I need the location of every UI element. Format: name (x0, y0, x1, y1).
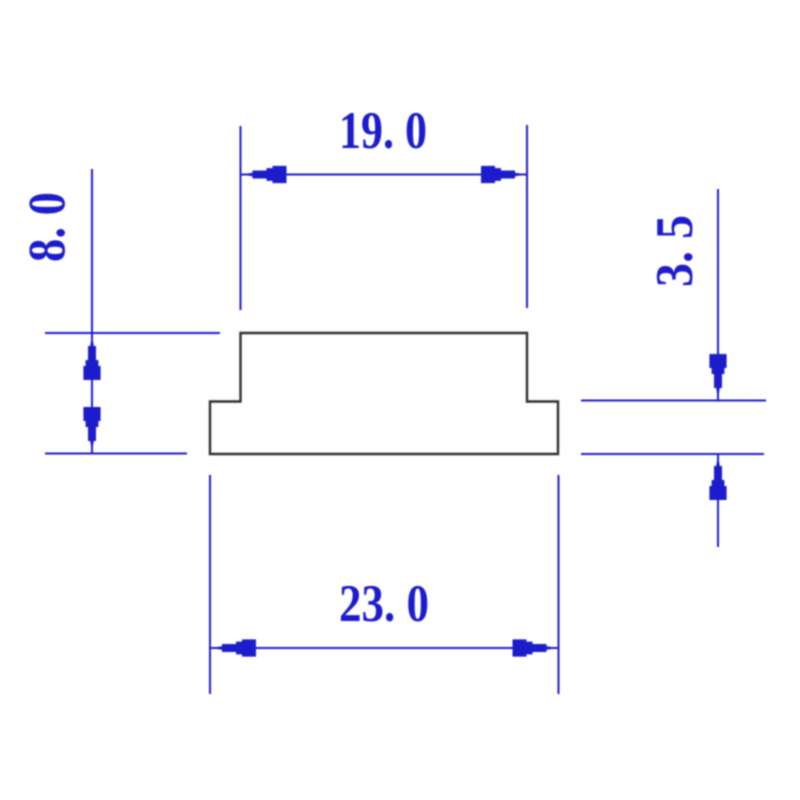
svg-text:3. 5: 3. 5 (646, 215, 704, 287)
svg-text:8. 0: 8. 0 (19, 192, 77, 262)
svg-text:23. 0: 23. 0 (339, 575, 429, 633)
svg-text:19. 0: 19. 0 (339, 102, 427, 160)
